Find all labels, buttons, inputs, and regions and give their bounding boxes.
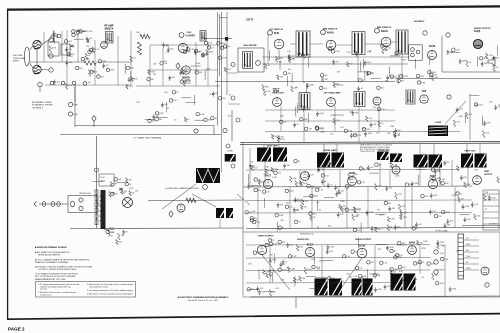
wire diag1 [192,194,216,207]
trimmer 3 [416,50,420,54]
svg-text:330: 330 [324,75,327,77]
svg-text:100: 100 [199,72,202,74]
wire blob tie 4 [336,144,338,153]
tube V18 [177,204,185,212]
divider resistor 2 [95,202,98,206]
svg-text:.047: .047 [402,206,406,208]
wire [419,244,421,274]
svg-text:330: 330 [392,208,395,210]
wire mid bus 4 [246,212,472,215]
CRT pin tick [458,271,464,273]
svg-text:◆ AIR SHAFT NOT EQUALIZERS IN: ◆ AIR SHAFT NOT EQUALIZERS IN [35,251,70,254]
svg-text:FOC: FOC [101,177,106,179]
svg-text:270K: 270K [309,85,314,87]
svg-text:100: 100 [222,98,225,100]
wire [289,187,291,228]
svg-text:6AX4: 6AX4 [409,242,416,245]
transformer T9b [475,154,491,168]
svg-text:YOKE: YOKE [435,122,442,124]
svg-text:270K: 270K [491,198,496,200]
svg-text:6AU8: 6AU8 [429,45,436,48]
terminal [231,164,235,168]
audio components [497,46,499,56]
wire bot bus 3 [246,269,430,272]
mixer components [179,71,182,73]
svg-text:.0047: .0047 [367,133,372,135]
svg-text:.01: .01 [129,184,132,186]
switch [79,206,83,210]
wire [39,87,41,92]
svg-text:33: 33 [363,168,365,170]
svg-text:.001: .001 [389,188,393,190]
wire [269,245,271,283]
wire bot bus 4 [246,282,390,285]
svg-text:INTERLOCK: INTERLOCK [79,193,91,195]
svg-text:5. All controls at normal sou: 5. All controls at normal sound; generat… [87,293,133,296]
svg-text:330: 330 [165,44,168,46]
wire [257,187,259,228]
tube pin circle [268,30,273,35]
pin table row [483,193,499,195]
components above notes [104,229,114,231]
svg-text:.005: .005 [323,88,327,90]
svg-text:.001: .001 [289,207,293,209]
svg-text:6BQ7A: 6BQ7A [105,27,114,31]
svg-text:.047: .047 [340,214,344,216]
svg-text:100: 100 [76,35,79,37]
svg-text:.005: .005 [402,267,406,269]
svg-text:150: 150 [69,62,72,64]
wire video bus 1 [265,109,395,111]
svg-text:HORIZ OSC: HORIZ OSC [297,239,310,241]
sound components 2 [431,75,434,81]
svg-text:470K: 470K [280,139,285,141]
flyback a [391,274,409,291]
svg-text:150: 150 [254,168,257,170]
svg-text:33: 33 [167,108,169,110]
svg-text:.001: .001 [291,59,295,61]
svg-text:33: 33 [447,162,449,164]
svg-text:.047: .047 [459,109,463,111]
tuner shield box 2 [61,44,70,55]
converter terminal [38,82,43,87]
svg-text:TO TUNER TEST TERMINAL: TO TUNER TEST TERMINAL [133,137,163,140]
svg-text:VERT: VERT [484,171,490,173]
wire [419,167,421,186]
svg-text:.01: .01 [267,65,270,67]
capacitor [86,39,88,43]
wire [262,56,410,58]
svg-text:120K: 120K [384,45,389,47]
svg-text:100: 100 [101,76,104,78]
svg-text:150: 150 [106,65,109,67]
svg-text:current and three counts.: current and three counts. [89,285,109,288]
terminal [446,33,450,37]
svg-text:270K: 270K [340,201,345,203]
svg-text:.001: .001 [308,129,312,131]
svg-text:100: 100 [297,199,300,201]
wire blob tie 3 [323,144,325,153]
divider resistor 3 [95,208,98,212]
svg-text:.005: .005 [153,63,157,65]
svg-text:INPUT: INPUT [13,61,20,63]
svg-text:270K: 270K [451,195,456,197]
CRT pin lead [464,245,480,247]
tube V6 [428,51,437,60]
svg-text:6U8: 6U8 [274,31,279,35]
wire vertical bus 4 [219,14,221,76]
video amp components [155,118,158,121]
wire [379,162,381,186]
wire lower bus [246,228,500,229]
svg-text:100: 100 [250,162,253,164]
wire [264,161,266,186]
transformer T7a [317,153,335,168]
terminal UHF [68,112,72,116]
CRT pin lead [464,251,480,253]
svg-text:4.5MC: 4.5MC [227,151,233,153]
svg-text:470K: 470K [421,248,426,250]
svg-text:470K: 470K [319,128,324,130]
wire [228,103,240,105]
svg-text:.01: .01 [229,95,232,97]
svg-text:ON PAGE 6: ON PAGE 6 [32,106,44,109]
CRT pin tick [458,245,464,247]
transformer T11a [352,279,369,296]
wire [404,187,406,228]
IF can T1 [296,31,310,57]
svg-text:120K: 120K [319,113,324,115]
wire vertical bus 2 [221,12,223,128]
svg-text:100: 100 [227,46,230,48]
svg-text:100: 100 [440,253,443,255]
wire [195,42,197,86]
wire [290,43,296,45]
svg-text:.001: .001 [164,63,168,65]
svg-text:.001: .001 [442,179,446,181]
wire mid bus 2 [246,169,460,172]
vert components [471,203,474,205]
svg-text:.001: .001 [260,288,264,290]
CRT pin tick [458,237,464,239]
svg-text:.001: .001 [477,216,481,218]
terminal [434,260,438,264]
svg-text:470K: 470K [465,206,470,208]
wire can drop 2 [357,55,359,82]
wire bot bus 2 [246,257,430,260]
svg-text:.01: .01 [421,277,424,279]
svg-text:SCHEMATIC SHOWN: SCHEMATIC SHOWN [32,104,53,107]
tube V5 [381,37,391,47]
svg-text:270K: 270K [390,77,395,79]
pin table row [483,211,499,213]
wire video bus 2 [265,120,395,122]
terminal [95,168,99,172]
pilot lamp [123,198,133,208]
wire tuner mid [30,61,84,63]
terminal [194,129,198,133]
svg-text:120K: 120K [403,76,408,78]
svg-text:.047: .047 [346,273,350,275]
notes box [36,282,136,298]
tube V1 [101,42,108,49]
svg-text:1ST VIDEO AMP: 1ST VIDEO AMP [324,92,341,95]
wire [339,170,341,187]
svg-text:100: 100 [152,121,155,123]
wire blob tie 6 [433,144,435,155]
wire video bus 3 [265,131,460,133]
wire [451,160,453,187]
tube pin circle [375,28,380,33]
tube pin circle [321,30,326,35]
wire [411,187,413,228]
wire long bus B+ a [240,141,500,142]
quad coil [406,90,415,104]
osc coil can [200,31,206,42]
svg-text:4. Line voltage maintained at: 4. Line voltage maintained at 117 volts … [87,289,134,292]
svg-text:.001: .001 [447,225,451,227]
wire top of CRT box [462,224,500,227]
CRT pin lead [464,269,480,271]
tube V2B [182,66,190,74]
svg-text:.001: .001 [287,73,291,75]
svg-text:.0047: .0047 [289,191,294,193]
IF3 components [377,86,380,89]
svg-text:.01: .01 [360,88,363,90]
resistor R7 [140,34,150,38]
tube V13 [301,172,310,181]
svg-text:100: 100 [359,268,362,270]
fuse [79,198,83,202]
border frame left [7,9,9,320]
svg-text:.047: .047 [496,57,500,59]
svg-text:.0047: .0047 [458,116,463,118]
vert output transformer a [315,279,334,296]
svg-text:VHF: VHF [74,105,79,107]
bottom section border [243,232,500,297]
test point TP3 [169,211,173,217]
trimmer can box [409,45,423,61]
4.5mc trap coil [225,154,236,162]
tube V17 [473,176,482,185]
svg-text:270K: 270K [279,215,284,217]
terminal [434,250,438,254]
wire tuner test [60,134,221,136]
wire vertical bus 1 [217,12,219,126]
svg-text:.005: .005 [425,196,429,198]
tuner components [79,30,82,33]
wire [249,148,251,187]
svg-text:.047: .047 [353,135,357,137]
svg-text:120K: 120K [399,53,404,55]
wire vertical bus 3 [226,12,228,95]
svg-text:120K: 120K [110,70,115,72]
tube V20 [305,247,314,256]
test point TP1 [176,63,180,69]
tube V15 [392,166,400,174]
flyback b [404,274,422,291]
svg-text:100: 100 [313,213,316,215]
wire [467,167,469,186]
svg-text:.005: .005 [434,77,438,79]
svg-text:.0047: .0047 [306,54,311,56]
small can [225,37,228,41]
svg-text:270K: 270K [335,51,340,53]
svg-text:6CD6: 6CD6 [359,245,366,248]
terminal [434,270,438,274]
tube V16 [428,179,437,188]
wire [439,170,441,187]
tube V10 [373,97,381,105]
CRT pin tick [458,266,464,268]
terminal [485,283,489,287]
trimmer 2 [411,53,415,57]
svg-text:150: 150 [283,122,286,124]
power transformer winding [100,196,103,221]
svg-text:33: 33 [297,124,299,126]
wire [311,187,313,228]
transformer T6b [273,148,291,162]
wire [295,297,297,308]
svg-text:330: 330 [252,165,255,167]
svg-text:.01: .01 [496,67,499,69]
focus box [99,174,114,186]
svg-text:1ST IF: 1ST IF [246,19,254,22]
wire [219,219,221,229]
terminal [231,63,235,67]
wire audio section bottom border [442,71,500,73]
svg-text:470K: 470K [196,63,201,65]
transformer T11b [363,279,380,296]
svg-text:33: 33 [298,222,300,224]
wire blob tie 2 [278,144,280,148]
svg-text:PAGE 2: PAGE 2 [8,327,25,332]
svg-text:DRIVE ADJUSTMENTS: DRIVE ADJUSTMENTS [38,254,61,257]
svg-text:.0047: .0047 [316,267,321,269]
balun coil bottom [33,65,41,73]
svg-text:270K: 270K [159,113,164,115]
svg-text:330: 330 [286,165,289,167]
terminal [50,81,54,85]
transformer T10b [226,208,235,218]
terminal C [49,68,53,72]
sync components [275,214,278,217]
svg-text:150: 150 [89,38,92,40]
svg-text:150: 150 [68,49,71,51]
wire osc bus [150,44,217,46]
tube V11 [420,95,428,103]
svg-text:450: 450 [466,250,469,252]
wire [93,122,95,128]
svg-text:120K: 120K [353,174,358,176]
svg-text:.047: .047 [357,230,361,232]
svg-text:300 OHM: 300 OHM [13,55,23,57]
wire mid bus [243,186,472,187]
wire tuner bottom [45,84,131,86]
wire mid bus 3 [246,199,472,202]
svg-text:6AQ5: 6AQ5 [474,30,481,33]
svg-text:270K: 270K [486,123,491,125]
svg-text:120K: 120K [390,219,395,221]
transformer T8a [414,155,431,168]
svg-text:100: 100 [153,74,156,76]
svg-text:150: 150 [165,92,168,94]
CRT socket strip [458,234,464,279]
vert blocking transformer [196,168,220,183]
wire diag vert [162,184,196,209]
svg-text:.005: .005 [56,81,60,83]
svg-text:.047: .047 [164,104,168,106]
resistor R8 [138,42,142,55]
wire [61,31,63,62]
svg-text:330: 330 [281,220,284,222]
wire blob tie 1 [263,144,265,148]
wire [66,30,68,85]
svg-text:.005: .005 [369,118,373,120]
wire [299,170,301,187]
wire tuner mid b [96,61,131,63]
wire [374,245,376,279]
svg-text:120K: 120K [290,268,295,270]
vert output transformer b [329,279,348,296]
svg-text:.001: .001 [272,292,276,294]
pin table row [483,223,499,225]
tube V7 audio output [473,39,482,48]
terminal [447,95,451,99]
svg-text:100: 100 [288,69,291,71]
svg-text:TWIN LEAD: TWIN LEAD [13,57,25,60]
divider resistor 0 [95,190,98,194]
svg-text:120K: 120K [423,241,428,243]
svg-text:330: 330 [172,77,175,79]
wire [310,43,323,45]
svg-text:150: 150 [173,100,176,102]
svg-text:270K: 270K [75,31,80,33]
wire [227,72,238,74]
svg-text:6AU6: 6AU6 [381,29,388,33]
svg-text:.005: .005 [166,52,170,54]
CRT pin lead [464,263,480,265]
svg-text:G2: G2 [466,238,468,240]
wire [221,128,223,172]
CRT pin tick [458,254,464,256]
wire [94,40,96,85]
transformer T8pre b [390,154,403,163]
IF can T3 [396,30,408,54]
svg-text:.005: .005 [68,41,72,43]
CRT pin tick [458,275,464,277]
wire [213,126,215,135]
svg-text:270K: 270K [369,212,374,214]
svg-text:330: 330 [197,51,200,53]
svg-text:.0047: .0047 [314,196,319,198]
svg-text:470K: 470K [319,261,324,263]
svg-text:HORIZ OUTPUT: HORIZ OUTPUT [355,239,372,241]
svg-text:.0047: .0047 [278,58,283,60]
wire [149,45,151,86]
pin table row [483,205,499,207]
wire [41,40,49,45]
svg-text:33: 33 [377,209,379,211]
svg-text:.01: .01 [215,118,218,120]
svg-text:UHF: UHF [74,114,79,116]
wire [321,245,323,279]
wire [203,38,232,40]
svg-text:.0047: .0047 [389,247,394,249]
terminal [423,31,427,35]
transformer T9a [461,154,477,168]
svg-text:VERT OUTPUT: VERT OUTPUT [258,236,274,238]
